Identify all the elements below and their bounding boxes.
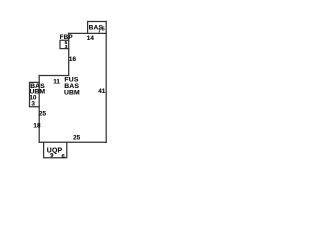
wire bottom edge of main block <box>39 141 106 143</box>
wire upper-left horizontal (11) <box>39 75 68 77</box>
svg-text:3: 3 <box>31 101 35 108</box>
wire left edge of main block <box>38 76 40 143</box>
svg-text:11: 11 <box>53 78 60 85</box>
node BAS top-right box <box>88 22 107 34</box>
svg-text:41: 41 <box>98 88 106 95</box>
svg-text:18: 18 <box>33 122 41 129</box>
svg-text:3: 3 <box>65 44 68 50</box>
svg-text:6: 6 <box>62 154 66 160</box>
node left bump-out box <box>30 82 40 106</box>
svg-text:5: 5 <box>102 27 105 33</box>
wire upper vertical (16) <box>68 33 70 75</box>
svg-text:16: 16 <box>69 56 77 63</box>
svg-text:25: 25 <box>73 135 81 142</box>
svg-text:UQP: UQP <box>47 148 63 155</box>
svg-text:14: 14 <box>87 35 95 42</box>
wire right edge of main block <box>105 21 107 142</box>
svg-text:UBM: UBM <box>64 89 80 96</box>
wire top edge of main block <box>69 32 107 34</box>
node UQP porch box <box>44 142 67 158</box>
svg-text:25: 25 <box>39 111 47 118</box>
node FBP porch box <box>60 40 69 48</box>
svg-text:7: 7 <box>98 28 101 34</box>
